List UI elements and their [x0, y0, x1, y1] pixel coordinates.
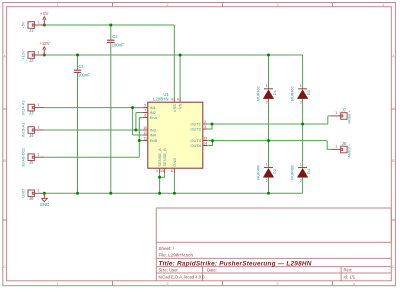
- svg-text:1: 1: [156, 169, 158, 173]
- U1 pin 10 IN3: [143, 126, 157, 133]
- U1 pin 1 SENSE_A: [156, 148, 162, 173]
- svg-text:SENSE_B: SENSE_B: [162, 148, 167, 167]
- junction: [267, 54, 270, 57]
- svg-text:3: 3: [204, 125, 206, 129]
- svg-text:VSS: VSS: [172, 104, 177, 112]
- diode D3: [290, 84, 311, 104]
- connector J4: [21, 122, 45, 138]
- svg-text:9: 9: [171, 98, 173, 102]
- svg-text:Date:: Date:: [207, 268, 217, 273]
- svg-text:Title: RapidStrike: PusherSteu: Title: RapidStrike: PusherSteuerung — L2…: [159, 260, 312, 267]
- svg-text:1: 1: [300, 163, 302, 167]
- svg-text:J2: J2: [29, 58, 34, 63]
- wire D1-D2 column: [268, 99, 270, 168]
- svg-text:J5: J5: [29, 160, 34, 165]
- svg-text:4: 4: [177, 98, 179, 102]
- svg-text:2: 2: [300, 100, 302, 104]
- svg-text:1: 1: [38, 50, 40, 54]
- svg-text:D4: D4: [306, 168, 311, 174]
- diode D4: [290, 163, 311, 183]
- svg-text:1: 1: [300, 84, 302, 88]
- wire IN14-A2 net: [44, 108, 143, 135]
- capacitor C1: [74, 64, 90, 78]
- svg-text:MUR460: MUR460: [290, 165, 294, 180]
- U1 pin 9 VSS: [171, 97, 177, 112]
- U1 pin 2 OUT1: [190, 120, 207, 127]
- wire GND net: [44, 173, 302, 193]
- capacitor C2: [107, 34, 124, 48]
- svg-text:EnB: EnB: [150, 138, 158, 143]
- connector J6: [21, 189, 45, 201]
- svg-text:1: 1: [335, 111, 337, 115]
- wire D3-D4 column: [302, 99, 304, 168]
- svg-text:L298HN: L298HN: [153, 97, 168, 102]
- connector J8: [331, 141, 352, 157]
- junction: [43, 24, 46, 27]
- svg-text:File: L298HN.sch: File: L298HN.sch: [159, 252, 194, 257]
- svg-text:1: 1: [38, 20, 40, 24]
- svg-text:100nF: 100nF: [112, 43, 124, 48]
- svg-text:1: 1: [38, 153, 40, 157]
- svg-text:+12V: +12V: [39, 41, 49, 46]
- power +12V: [39, 41, 49, 55]
- svg-text:2: 2: [167, 282, 169, 286]
- svg-text:OUT4: OUT4: [190, 143, 201, 148]
- svg-text:Motor +: Motor +: [347, 109, 352, 123]
- svg-text:6: 6: [144, 113, 146, 117]
- junction: [173, 192, 176, 195]
- junction: [158, 192, 161, 195]
- svg-text:2: 2: [204, 120, 206, 124]
- wire OUT1/OUT2 net: [208, 116, 331, 129]
- svg-text:10: 10: [143, 126, 147, 130]
- wire C1 column: [77, 55, 79, 193]
- connector J3: [21, 99, 45, 115]
- svg-text:Sheet: /: Sheet: /: [159, 246, 175, 251]
- svg-text:MUR460: MUR460: [256, 165, 260, 180]
- svg-text:1: 1: [57, 3, 59, 7]
- title block: [156, 208, 391, 281]
- junction: [109, 192, 112, 195]
- svg-text:Id: 1/1: Id: 1/1: [344, 275, 356, 280]
- junction: [267, 192, 270, 195]
- svg-text:J1: J1: [29, 28, 34, 33]
- svg-text:4: 4: [382, 3, 384, 7]
- svg-text:D1: D1: [272, 89, 277, 95]
- svg-text:2: 2: [300, 179, 302, 183]
- svg-text:Motor −: Motor −: [347, 143, 352, 157]
- svg-text:GND: GND: [40, 202, 50, 207]
- junction: [158, 176, 161, 179]
- svg-text:C2: C2: [112, 34, 118, 39]
- svg-text:D2: D2: [272, 168, 277, 174]
- svg-text:7: 7: [144, 108, 146, 112]
- power +5V: [41, 11, 49, 25]
- svg-text:1: 1: [266, 84, 268, 88]
- connector J1: [21, 20, 45, 32]
- diode D2: [256, 163, 277, 183]
- junction: [211, 123, 214, 126]
- junction: [179, 54, 182, 57]
- svg-text:MUR460: MUR460: [290, 86, 294, 101]
- svg-text:J3: J3: [29, 110, 34, 115]
- U1 pin 15 SENSE_B: [160, 148, 167, 173]
- svg-text:IN14-A2: IN14-A2: [21, 99, 26, 114]
- svg-text:EnAB-D11: EnAB-D11: [21, 147, 26, 166]
- svg-text:KiCad E.D.A. kicad 4.0.6: KiCad E.D.A. kicad 4.0.6: [159, 275, 206, 280]
- wire IN23-A1 net: [44, 113, 143, 131]
- junction: [267, 139, 270, 142]
- svg-text:VS: VS: [178, 103, 183, 109]
- svg-text:C: C: [392, 265, 395, 269]
- svg-text:1: 1: [38, 103, 40, 107]
- U1 pin 6 EnA: [143, 113, 158, 120]
- svg-text:EnA: EnA: [150, 115, 158, 120]
- svg-text:12: 12: [143, 131, 147, 135]
- svg-text:+5V: +5V: [41, 11, 49, 16]
- diode D1: [256, 84, 277, 104]
- svg-text:1: 1: [38, 189, 40, 193]
- svg-text:13: 13: [203, 136, 207, 140]
- svg-text:GND: GND: [172, 158, 177, 167]
- svg-text:MUR460: MUR460: [256, 86, 260, 101]
- junction: [109, 24, 112, 27]
- junction: [131, 106, 134, 109]
- U1 pin 8 GND: [171, 158, 177, 174]
- U1 pin 4 VS: [177, 97, 183, 109]
- svg-text:IN23-A1: IN23-A1: [21, 122, 26, 137]
- junction: [301, 123, 304, 126]
- U1 pin 14 OUT4: [190, 141, 207, 148]
- junction: [43, 192, 46, 195]
- svg-text:11: 11: [143, 136, 147, 140]
- wire EnAB net: [44, 118, 143, 158]
- svg-text:1: 1: [38, 125, 40, 129]
- svg-text:3: 3: [277, 3, 279, 7]
- U1 pin 11 EnB: [143, 136, 158, 143]
- junction: [76, 54, 79, 57]
- junction: [43, 54, 46, 57]
- svg-text:1: 1: [266, 163, 268, 167]
- wire +5V net: [44, 25, 174, 97]
- U1 pin 7 IN2: [143, 108, 157, 115]
- svg-text:14: 14: [203, 141, 207, 145]
- svg-text:5: 5: [144, 103, 146, 107]
- U1 pin 12 IN4: [143, 131, 157, 138]
- svg-text:8: 8: [171, 169, 173, 173]
- svg-text:15: 15: [160, 169, 164, 173]
- svg-text:1: 1: [57, 282, 59, 286]
- svg-text:IN4: IN4: [150, 133, 157, 138]
- svg-text:D3: D3: [306, 89, 311, 95]
- svg-text:2: 2: [266, 179, 268, 183]
- wire C2 column: [110, 25, 112, 193]
- svg-text:3: 3: [277, 282, 279, 286]
- junction: [76, 192, 79, 195]
- svg-text:2: 2: [167, 3, 169, 7]
- IC U1 L298HN: [148, 92, 203, 168]
- connector J7: [331, 107, 352, 123]
- svg-text:Size: User: Size: User: [159, 268, 179, 273]
- U1 pin 5 IN1: [143, 103, 157, 110]
- svg-text:J6: J6: [29, 196, 34, 201]
- power GND: [40, 193, 50, 207]
- wire OUT3/OUT4 net: [208, 141, 331, 150]
- wire +12V net: [44, 55, 302, 97]
- svg-text:GND: GND: [21, 189, 26, 198]
- connector J2: [21, 50, 45, 63]
- junction: [211, 139, 214, 142]
- connector J5: [21, 147, 45, 166]
- svg-text:+12V: +12V: [21, 50, 26, 60]
- svg-text:OUT2: OUT2: [190, 127, 201, 132]
- svg-text:1: 1: [335, 145, 337, 149]
- svg-text:100nF: 100nF: [78, 73, 90, 78]
- junction: [134, 129, 137, 132]
- U1 pin 13 OUT3: [190, 136, 207, 143]
- junction: [138, 139, 141, 142]
- svg-text:2: 2: [266, 100, 268, 104]
- svg-text:Rev:: Rev:: [344, 268, 353, 273]
- U1 pin 3 OUT2: [190, 125, 207, 132]
- svg-text:C1: C1: [78, 64, 84, 69]
- svg-text:4: 4: [353, 282, 355, 286]
- svg-text:J4: J4: [29, 133, 34, 138]
- svg-text:+5V: +5V: [21, 21, 26, 29]
- svg-text:C: C: [3, 265, 6, 269]
